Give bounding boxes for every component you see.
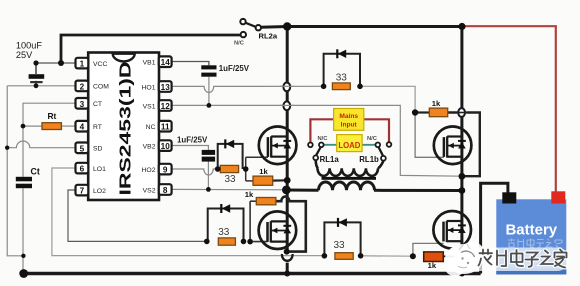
svg-text:IRS2453(1)D: IRS2453(1)D <box>118 62 135 196</box>
junction ground rail left end <box>19 269 28 278</box>
wire HO1 network output to gate node Q3 <box>360 86 415 112</box>
transistor Q1 top-left MOSFET <box>259 127 297 165</box>
wire gate branch Q3 top-right FET <box>415 113 444 158</box>
hop circle on left rail at HO1 wire <box>283 83 290 92</box>
wire left bridge rail <box>286 27 289 84</box>
pin 1 <box>76 58 108 69</box>
gate network N3 (LO2, Q2): diode loop <box>208 204 244 241</box>
node HO1 network right <box>357 84 363 90</box>
svg-text:HO2: HO2 <box>142 167 156 174</box>
node LO1 network left <box>322 253 328 259</box>
svg-text:LOAD: LOAD <box>338 141 360 150</box>
svg-text:Battery: Battery <box>505 222 557 239</box>
capacitor C3 1uF/25V bootstrap bottom <box>177 136 215 162</box>
svg-text:VS2: VS2 <box>143 187 156 194</box>
watermark logo <box>445 242 569 276</box>
wire LO2 pin7 down and right <box>68 190 207 241</box>
resistor 33 (N3) <box>218 227 235 245</box>
wire to gate Q2 <box>250 241 268 243</box>
svg-text:RL1a: RL1a <box>320 155 340 164</box>
node LOAD box <box>337 135 362 152</box>
pin 5 <box>76 143 103 154</box>
wire left bridge output to transformer primary <box>286 189 318 192</box>
svg-text:COM: COM <box>93 84 109 91</box>
wire transformer primary right to right rail <box>374 189 462 192</box>
pin 12 <box>143 100 172 111</box>
svg-text:RL2a: RL2a <box>259 32 278 41</box>
load teal wiring <box>324 144 376 146</box>
pin 9 <box>142 164 172 175</box>
node LO2 network right <box>241 239 247 245</box>
svg-text:RL1b: RL1b <box>359 155 379 164</box>
transformer T1 secondary winding <box>316 160 384 176</box>
svg-text:12: 12 <box>161 102 171 111</box>
wire VS1 pin12 long run to right bridge node <box>172 105 462 176</box>
node LO2 network left <box>204 239 210 245</box>
svg-text:1k: 1k <box>259 167 268 176</box>
wire 1k over right-rail hop <box>457 112 468 114</box>
svg-text:33: 33 <box>218 227 230 238</box>
junction top rail / left bridge rail <box>283 22 291 30</box>
wire HO1 pin13 with dip under cap lead <box>172 86 324 92</box>
node HO2 network left <box>215 166 221 172</box>
svg-text:1k: 1k <box>245 190 254 199</box>
svg-text:RT: RT <box>93 124 102 131</box>
node Q4 gate <box>410 253 416 259</box>
svg-text:11: 11 <box>161 123 170 132</box>
relay contact RL1b <box>359 136 391 164</box>
pin 2 <box>76 81 110 92</box>
gate network Q3: series wire dot to 1k <box>415 111 429 113</box>
wire SD pin5 with hop over CT vertical <box>7 141 75 148</box>
wire top supply rail from RL2a to right <box>260 25 462 29</box>
junction VCC riser / pin 1 <box>58 60 64 66</box>
svg-text:1k: 1k <box>432 99 441 108</box>
wire 1k Q4 to right rail source <box>443 255 462 257</box>
node right bridge output <box>459 187 466 194</box>
hop circle on left rail at VS1 wire <box>283 101 290 110</box>
svg-text:HO1: HO1 <box>142 84 156 91</box>
wire 1k to hop and around to source Q3 <box>448 113 480 177</box>
wire node to 1k Q1 <box>246 180 253 182</box>
svg-text:33: 33 <box>224 174 236 185</box>
resistor 33 (N4) <box>333 240 353 259</box>
pin 7 <box>76 185 107 196</box>
svg-text:10: 10 <box>161 142 171 151</box>
gate network N4 (LO1, Q4): diode loop <box>324 218 360 256</box>
svg-text:NC: NC <box>146 124 156 131</box>
node HO1 network left <box>321 84 327 90</box>
wire VS1 over hop <box>280 104 294 106</box>
wire battery negative <box>481 183 508 273</box>
pin 6 <box>76 163 107 174</box>
wire Ct bottom to ground <box>22 188 24 273</box>
svg-text:13: 13 <box>161 83 171 92</box>
wire HO1 over hop <box>280 85 294 87</box>
junction Q3 source / VS1 <box>459 173 466 180</box>
junction ground rail / right rail <box>459 271 465 277</box>
svg-text:2: 2 <box>80 82 85 91</box>
svg-text:N/C: N/C <box>318 136 329 142</box>
wire VCC pin1 <box>36 62 76 64</box>
svg-text:1k: 1k <box>428 261 437 270</box>
wire 1k Q1 to left rail source junction <box>273 179 288 182</box>
wire COM pin2 horizontal <box>7 85 75 87</box>
wire VB2 pin10 to bootstrap cap C3 <box>172 146 209 150</box>
junction Q1 source / 1k <box>284 177 291 184</box>
junction SD wire / ground branch <box>5 146 9 150</box>
node LO1 network right <box>358 253 364 259</box>
pin 13 <box>142 81 172 92</box>
wire COM/ground left vertical <box>7 86 23 256</box>
svg-text:VB1: VB1 <box>143 60 156 67</box>
wire left rail U-hop around LO1 wire <box>282 254 293 261</box>
svg-text:4: 4 <box>80 123 85 132</box>
transistor Q3 top-right MOSFET <box>434 127 472 165</box>
transistor Q4 bottom-right MOSFET <box>433 211 471 249</box>
junction top rail / right bridge rail <box>458 23 465 30</box>
svg-text:5: 5 <box>80 144 85 153</box>
transistor Q2 bottom-left MOSFET <box>259 211 297 249</box>
wire VCC thick riser to relay RL2a <box>61 35 241 64</box>
svg-text:33: 33 <box>336 73 348 84</box>
resistor 1k (Q2 gate-source) <box>245 190 276 205</box>
wire red positive supply to battery <box>463 26 556 193</box>
svg-text:LO2: LO2 <box>93 188 106 195</box>
svg-text:N/C: N/C <box>367 136 378 142</box>
svg-text:SD: SD <box>93 146 103 153</box>
svg-text:VB2: VB2 <box>143 143 156 150</box>
wire HO2 pin9 with dip under cap lead <box>172 169 218 175</box>
svg-text:Ct: Ct <box>31 167 40 177</box>
svg-text:Rt: Rt <box>48 111 57 121</box>
wire VS2 pin8 to left bridge node <box>172 188 287 190</box>
svg-text:VS1: VS1 <box>143 103 156 110</box>
mains input red wiring <box>310 119 389 142</box>
svg-text:25V: 25V <box>16 50 33 60</box>
IC U1 IRS2453(1)D body <box>88 53 159 201</box>
svg-text:9: 9 <box>163 166 168 175</box>
transformer T1 core <box>322 177 377 180</box>
node Q2 gate <box>247 239 253 245</box>
gate network Q1 top-left FET: vertical node wire <box>245 157 247 181</box>
svg-text:CT: CT <box>93 101 102 108</box>
junction Q2 source / 1k <box>284 249 290 255</box>
node Q1 gate <box>243 166 249 172</box>
svg-text:N/C: N/C <box>234 41 245 47</box>
pin 4 <box>76 121 102 132</box>
svg-text:6: 6 <box>80 165 85 174</box>
junction Rt / CT vertical <box>21 124 26 129</box>
svg-text:Mains: Mains <box>339 113 358 120</box>
wire node to 1k Q2 <box>250 200 256 202</box>
wire ground rail <box>24 272 481 275</box>
wire LO1 continue to Q4 gate node <box>361 255 413 257</box>
wire VB1 pin14 to bootstrap cap C2 <box>172 62 209 66</box>
svg-text:14: 14 <box>161 58 171 67</box>
svg-text:1uF/25V: 1uF/25V <box>219 64 250 73</box>
wire LO1 pin6 down and right <box>52 168 325 256</box>
wire to gate Q1 <box>246 156 268 158</box>
wire gate branch Q4 bottom-right FET <box>413 243 444 256</box>
hop circle on right rail at 1k gate wire <box>458 108 465 117</box>
pin 3 <box>76 98 103 109</box>
resistor 33 (N1) <box>332 73 350 90</box>
gate network N1 (HO1, Q3): diode loop <box>324 49 360 86</box>
battery <box>496 191 566 274</box>
gate network N2 (HO2, Q1): diode loop <box>218 139 243 169</box>
svg-text:8: 8 <box>163 186 168 195</box>
resistor 1k (Q3 gate-source) <box>429 99 447 117</box>
gate network Q2 bottom-left FET: vertical node wire <box>249 201 251 241</box>
node Q3 gate <box>412 109 418 115</box>
node Mains Input box <box>334 109 364 131</box>
resistor 33 (N2) <box>220 165 238 185</box>
junction ground rail / left rail <box>284 271 290 277</box>
relay contact RL1a <box>308 136 339 164</box>
wire C2 lower lead down to VS1 <box>208 77 210 106</box>
wire C3 lower lead to VS2 <box>207 162 209 190</box>
wire CT pin3 to Ct vertical <box>23 103 76 177</box>
junction C1 bottom / COM wire <box>34 83 39 88</box>
wire 1k Q2 hop over left rail and down to source <box>276 197 306 252</box>
pin 11 <box>146 121 172 132</box>
junction C2 / VS1 wire <box>207 103 212 108</box>
junction C3 / VS2 wire <box>206 187 211 192</box>
svg-text:33: 33 <box>333 240 345 251</box>
resistor 1k (Q4 gate-source) <box>424 252 444 270</box>
svg-text:Input: Input <box>341 122 358 129</box>
junction C1 top / VCC wire <box>33 60 38 65</box>
capacitor C2 1uF/25V bootstrap top <box>201 64 249 77</box>
svg-text:3: 3 <box>80 100 85 109</box>
svg-text:VCC: VCC <box>93 61 107 68</box>
resistor Rt <box>42 111 61 130</box>
svg-text:LO1: LO1 <box>93 166 106 173</box>
svg-text:1uF/25V: 1uF/25V <box>177 136 208 145</box>
svg-text:7: 7 <box>80 187 85 196</box>
svg-text:1: 1 <box>80 60 85 69</box>
node left bridge output <box>282 186 291 195</box>
pin 10 <box>143 140 172 151</box>
capacitor C1 100uF/25V <box>16 41 44 86</box>
watermark text (stylized CJK strokes) <box>479 250 567 268</box>
pin 14 <box>143 56 172 67</box>
pin 8 <box>143 184 172 195</box>
transformer T1 primary winding <box>319 182 375 190</box>
junction ground branch / Ct lead <box>21 254 25 258</box>
capacitor Ct <box>16 167 40 189</box>
relay contact RL2a <box>234 19 278 47</box>
wire right bridge rail <box>460 27 463 109</box>
resistor 1k (Q1 gate-source) <box>253 167 273 185</box>
wire RT pin4 <box>61 125 75 127</box>
